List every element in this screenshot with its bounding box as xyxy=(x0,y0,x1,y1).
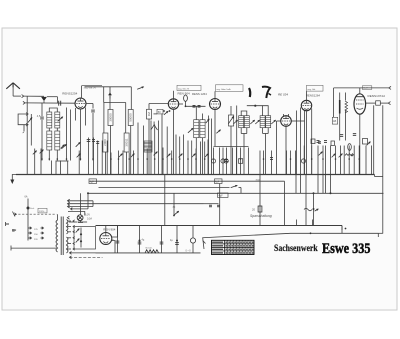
speaker line 1 xyxy=(68,199,94,202)
wire xyxy=(306,91,308,100)
speaker terminal xyxy=(388,102,390,105)
wire xyxy=(285,127,287,175)
wire xyxy=(301,108,312,175)
wire xyxy=(333,88,335,117)
rail 2 xyxy=(90,180,285,182)
coupling box C5 xyxy=(376,101,381,105)
bottom power rail xyxy=(96,252,201,254)
tube V2 REN904 xyxy=(168,99,178,109)
label RE034 xyxy=(278,93,288,97)
anode wire xyxy=(179,101,186,106)
secondary 1 xyxy=(67,220,69,234)
wire xyxy=(209,116,212,175)
coil L3a xyxy=(239,116,244,128)
wire xyxy=(305,175,307,226)
wire xyxy=(23,125,25,132)
transformer primary xyxy=(56,214,58,252)
wire xyxy=(359,88,361,94)
wire xyxy=(103,87,105,103)
contact marks xyxy=(23,131,25,135)
svg-text:REN 904: REN 904 xyxy=(103,227,116,231)
wire group mid xyxy=(111,121,208,175)
svg-text:Netzdr.: Netzdr. xyxy=(146,247,153,250)
wire xyxy=(173,91,175,99)
bottom rail xyxy=(96,226,343,234)
tuning arrow xyxy=(58,117,63,122)
junction xyxy=(185,105,187,107)
wire xyxy=(80,141,82,161)
grid resistor R5 xyxy=(147,109,152,119)
svg-text:4µF: 4µF xyxy=(219,195,224,198)
edge tick xyxy=(6,222,10,226)
switch S5 xyxy=(216,130,220,134)
switch S7 xyxy=(173,206,179,216)
changeover switch xyxy=(151,122,158,131)
wire xyxy=(85,108,87,126)
ink smudge 2 xyxy=(262,87,271,98)
cap C10 xyxy=(170,239,179,244)
wire anode xyxy=(85,86,132,88)
caps row xyxy=(87,140,327,162)
resistor zigzag h xyxy=(345,154,354,157)
small circles row xyxy=(211,159,305,164)
wire xyxy=(284,181,286,225)
wire shelf xyxy=(247,105,263,107)
loop bottom xyxy=(69,221,87,223)
comp circle xyxy=(190,238,195,243)
wire xyxy=(80,228,82,248)
transformer core xyxy=(61,217,63,256)
cap box xyxy=(218,193,229,198)
svg-text:0,3A: 0,3A xyxy=(87,218,92,221)
wire xyxy=(105,226,107,233)
label xyxy=(256,180,260,182)
wire xyxy=(149,103,169,105)
svg-text:6A: 6A xyxy=(25,196,28,199)
resistor R4 xyxy=(124,133,129,152)
wire xyxy=(87,193,89,209)
wire xyxy=(277,121,281,175)
wire xyxy=(291,233,383,237)
wire xyxy=(340,93,346,141)
coupling box xyxy=(157,109,163,114)
wire corner xyxy=(341,226,343,231)
resistor R3 xyxy=(103,133,108,152)
tube V1 RENS1254 xyxy=(75,98,86,109)
Schaltung text xyxy=(250,214,272,218)
svg-text:220V~: 220V~ xyxy=(39,211,46,213)
mains dashed xyxy=(15,213,57,215)
wire xyxy=(380,102,388,104)
svg-text:50000: 50000 xyxy=(128,113,132,122)
coil L2a xyxy=(194,120,199,138)
label box V5 xyxy=(307,85,324,91)
block GB xyxy=(332,117,337,124)
cap C7 xyxy=(111,239,119,243)
fuse xyxy=(25,196,36,241)
terminal xyxy=(67,216,69,219)
trimmer R6 xyxy=(228,115,233,126)
svg-text:30011: 30011 xyxy=(124,138,128,146)
wire xyxy=(13,95,21,97)
coil L1b xyxy=(55,112,60,128)
ink smudge 1 xyxy=(249,88,250,97)
rail 3 xyxy=(99,188,242,194)
comp marks xyxy=(209,205,220,207)
input contact xyxy=(23,101,25,104)
wire xyxy=(330,175,332,194)
lamp squiggle xyxy=(304,208,312,211)
svg-text:BF: BF xyxy=(12,229,16,233)
wire xyxy=(92,113,94,161)
padder C3 xyxy=(37,114,44,119)
cap box xyxy=(89,179,97,184)
wire xyxy=(173,109,175,174)
tube V7 REN904 xyxy=(100,233,112,245)
label box C xyxy=(362,86,372,90)
label RENS1254 xyxy=(62,91,77,95)
tube V6 RENS1374d xyxy=(354,94,366,114)
label xyxy=(186,250,192,253)
bracket xyxy=(203,233,291,249)
fuse oval xyxy=(348,144,352,151)
svg-text:RENS1374d: RENS1374d xyxy=(368,94,385,98)
resistor R1 xyxy=(108,110,113,126)
wire xyxy=(139,226,141,253)
wire xyxy=(49,108,57,112)
choke zigzag xyxy=(145,247,159,253)
label 6.3V xyxy=(85,213,92,220)
svg-text:1M: 1M xyxy=(147,112,151,117)
svg-text:neg. Gitt.: neg. Gitt. xyxy=(308,88,317,91)
junction xyxy=(80,233,82,242)
decoupling caps xyxy=(193,106,201,108)
label RENS1264b xyxy=(306,94,320,98)
wire xyxy=(263,106,269,116)
label box V2 xyxy=(177,85,201,90)
pilot lamp xyxy=(77,215,83,221)
rail 4 xyxy=(87,192,384,194)
wire xyxy=(105,152,126,175)
comp box 3 xyxy=(331,141,335,146)
title Sachsenwerk xyxy=(274,242,318,253)
svg-text:4µF: 4µF xyxy=(215,181,220,184)
coil L3b xyxy=(244,116,249,128)
wire xyxy=(241,128,247,134)
svg-text:RE 034: RE 034 xyxy=(278,93,288,97)
wire xyxy=(219,184,221,226)
wire xyxy=(296,111,298,175)
wave-trap arrow xyxy=(137,87,144,90)
wire xyxy=(78,193,83,222)
wire group mid3 xyxy=(260,151,296,175)
antenna switch contact xyxy=(22,95,24,98)
wire xyxy=(241,111,247,116)
cap C9 xyxy=(160,242,164,244)
wire xyxy=(148,104,150,175)
svg-text:RENS1264: RENS1264 xyxy=(306,94,320,98)
wire corner xyxy=(130,87,132,110)
coil L1a xyxy=(47,112,52,128)
switch S2 xyxy=(76,142,81,147)
svg-text:RENS 1264: RENS 1264 xyxy=(192,92,207,96)
wire xyxy=(296,175,326,194)
wire xyxy=(214,91,216,98)
antenna xyxy=(6,83,20,96)
choke Dr2 xyxy=(339,100,341,114)
right rail xyxy=(382,105,384,233)
svg-text:30Ω: 30Ω xyxy=(256,180,260,182)
wire xyxy=(263,128,269,134)
wire xyxy=(92,201,94,207)
label box V3 xyxy=(216,85,244,92)
title Eswe 335 xyxy=(322,240,371,257)
wire xyxy=(81,86,83,98)
wire xyxy=(112,241,115,253)
tick marks xyxy=(297,220,347,235)
cathode wire xyxy=(80,109,82,141)
mains plug xyxy=(13,212,17,217)
wire xyxy=(186,105,206,107)
loop line xyxy=(68,212,85,216)
switch S3 xyxy=(164,111,168,115)
wire xyxy=(47,97,58,103)
mains wire xyxy=(11,246,56,251)
wire xyxy=(196,138,202,175)
volume pot xyxy=(56,144,69,161)
tuning arrow xyxy=(188,128,193,133)
label REN904b xyxy=(103,227,116,231)
tuning arrow xyxy=(255,120,259,124)
label REN904 xyxy=(178,92,191,96)
arrow line xyxy=(71,208,89,211)
wire xyxy=(173,193,175,215)
wire group right xyxy=(304,146,371,175)
main bus xyxy=(16,174,375,176)
wire xyxy=(25,102,75,104)
junction xyxy=(163,110,170,112)
wire shelf xyxy=(104,103,126,134)
svg-text:4,5: 4,5 xyxy=(37,114,41,118)
taps xyxy=(67,220,74,250)
wire xyxy=(375,175,383,177)
switch S4 xyxy=(206,119,210,123)
svg-text:Eswe 335: Eswe 335 xyxy=(322,240,371,257)
wire xyxy=(24,95,44,97)
mains label xyxy=(38,208,47,213)
antenna trimmer C1 xyxy=(41,97,47,103)
comp box xyxy=(363,139,368,145)
pins xyxy=(284,114,289,116)
svg-text:30000: 30000 xyxy=(108,113,112,122)
switch arrows xyxy=(33,142,371,158)
wire xyxy=(264,134,266,175)
wire xyxy=(359,114,361,174)
speaker line 3 xyxy=(68,205,94,208)
wire xyxy=(112,226,118,238)
wire xyxy=(204,203,219,205)
wire xyxy=(117,226,119,253)
grid-bias label xyxy=(82,86,103,90)
wire xyxy=(196,106,202,119)
cap C8 xyxy=(138,239,145,244)
switch S6 xyxy=(231,185,238,187)
secondary 2 xyxy=(67,237,69,253)
wire xyxy=(366,102,376,104)
speaker line 2 xyxy=(68,202,204,205)
electrolytic C6 xyxy=(252,206,262,212)
wire xyxy=(154,114,163,175)
wire xyxy=(313,193,319,225)
wire group mid2 xyxy=(214,147,249,175)
wire xyxy=(86,104,93,109)
svg-text:6,3V: 6,3V xyxy=(85,213,90,216)
svg-text:0⋯0: 0⋯0 xyxy=(186,250,192,253)
wire top xyxy=(334,87,389,89)
resistor R7 zigzag xyxy=(345,101,348,113)
wire xyxy=(26,96,28,104)
coil L4a xyxy=(260,116,265,128)
wire xyxy=(49,150,57,161)
wire xyxy=(192,226,194,253)
comp box 2 xyxy=(311,139,315,144)
tuning arrow xyxy=(271,120,275,124)
speaker terminal xyxy=(389,86,391,89)
voltage selector xyxy=(28,227,44,241)
rectifier box xyxy=(74,227,96,250)
svg-text:RENS1254: RENS1254 xyxy=(62,91,77,95)
coil L1c xyxy=(47,131,52,150)
cathode cap C4 xyxy=(91,110,95,112)
label RENS1374d xyxy=(368,94,385,98)
wire xyxy=(236,106,238,175)
AVC arrow xyxy=(108,87,112,99)
svg-text:4µF: 4µF xyxy=(90,181,95,184)
wire xyxy=(49,128,57,131)
svg-text:Sachsenwerk: Sachsenwerk xyxy=(274,242,318,253)
svg-text:2000: 2000 xyxy=(103,139,107,146)
tuning arrow xyxy=(233,120,237,124)
BF text xyxy=(12,229,16,233)
coil L5 xyxy=(144,141,152,152)
wire xyxy=(67,108,76,161)
wire xyxy=(243,134,245,175)
svg-text:REN 904: REN 904 xyxy=(178,92,191,96)
wire xyxy=(214,110,216,147)
parts table xyxy=(212,240,255,254)
coil L2b xyxy=(200,120,205,138)
wire xyxy=(259,175,261,226)
pickup jack xyxy=(18,113,28,127)
label RENS1264a xyxy=(192,92,207,96)
ground xyxy=(10,175,16,185)
junction xyxy=(313,192,332,194)
cap box xyxy=(215,179,223,184)
junction dots xyxy=(41,158,360,160)
tube V3 RENS1264 xyxy=(210,99,221,110)
switch S9 xyxy=(76,239,80,243)
tick pair xyxy=(340,134,356,137)
coil L1d xyxy=(55,131,60,150)
arrow line pair xyxy=(70,252,103,259)
rf choke Dr1 xyxy=(184,95,188,101)
wire xyxy=(176,226,178,253)
cap xyxy=(318,142,321,144)
svg-text:Sparschaltung: Sparschaltung xyxy=(250,214,272,218)
tube V5 RENS1264 xyxy=(301,100,311,110)
wire xyxy=(111,126,131,175)
switch S8 xyxy=(76,229,80,233)
wire xyxy=(164,175,166,226)
wire xyxy=(230,106,232,175)
tube V4 RE034 xyxy=(281,116,292,127)
wire group left xyxy=(27,105,107,175)
tuning arrow xyxy=(250,120,254,124)
svg-text:neg. Gitt. 2V: neg. Gitt. 2V xyxy=(178,87,190,90)
coil L4b xyxy=(266,116,271,128)
grid capacitor C2 xyxy=(59,101,61,106)
wire xyxy=(373,105,375,174)
wire xyxy=(41,103,43,161)
svg-text:GB: GB xyxy=(333,120,337,123)
switch S1 xyxy=(28,118,32,123)
resistor R2 xyxy=(128,110,133,126)
wire xyxy=(30,114,32,146)
wire xyxy=(161,226,163,253)
wire xyxy=(291,111,304,175)
svg-text:neg. Gitter 1mA: neg. Gitter 1mA xyxy=(217,88,232,91)
wire xyxy=(109,96,111,110)
